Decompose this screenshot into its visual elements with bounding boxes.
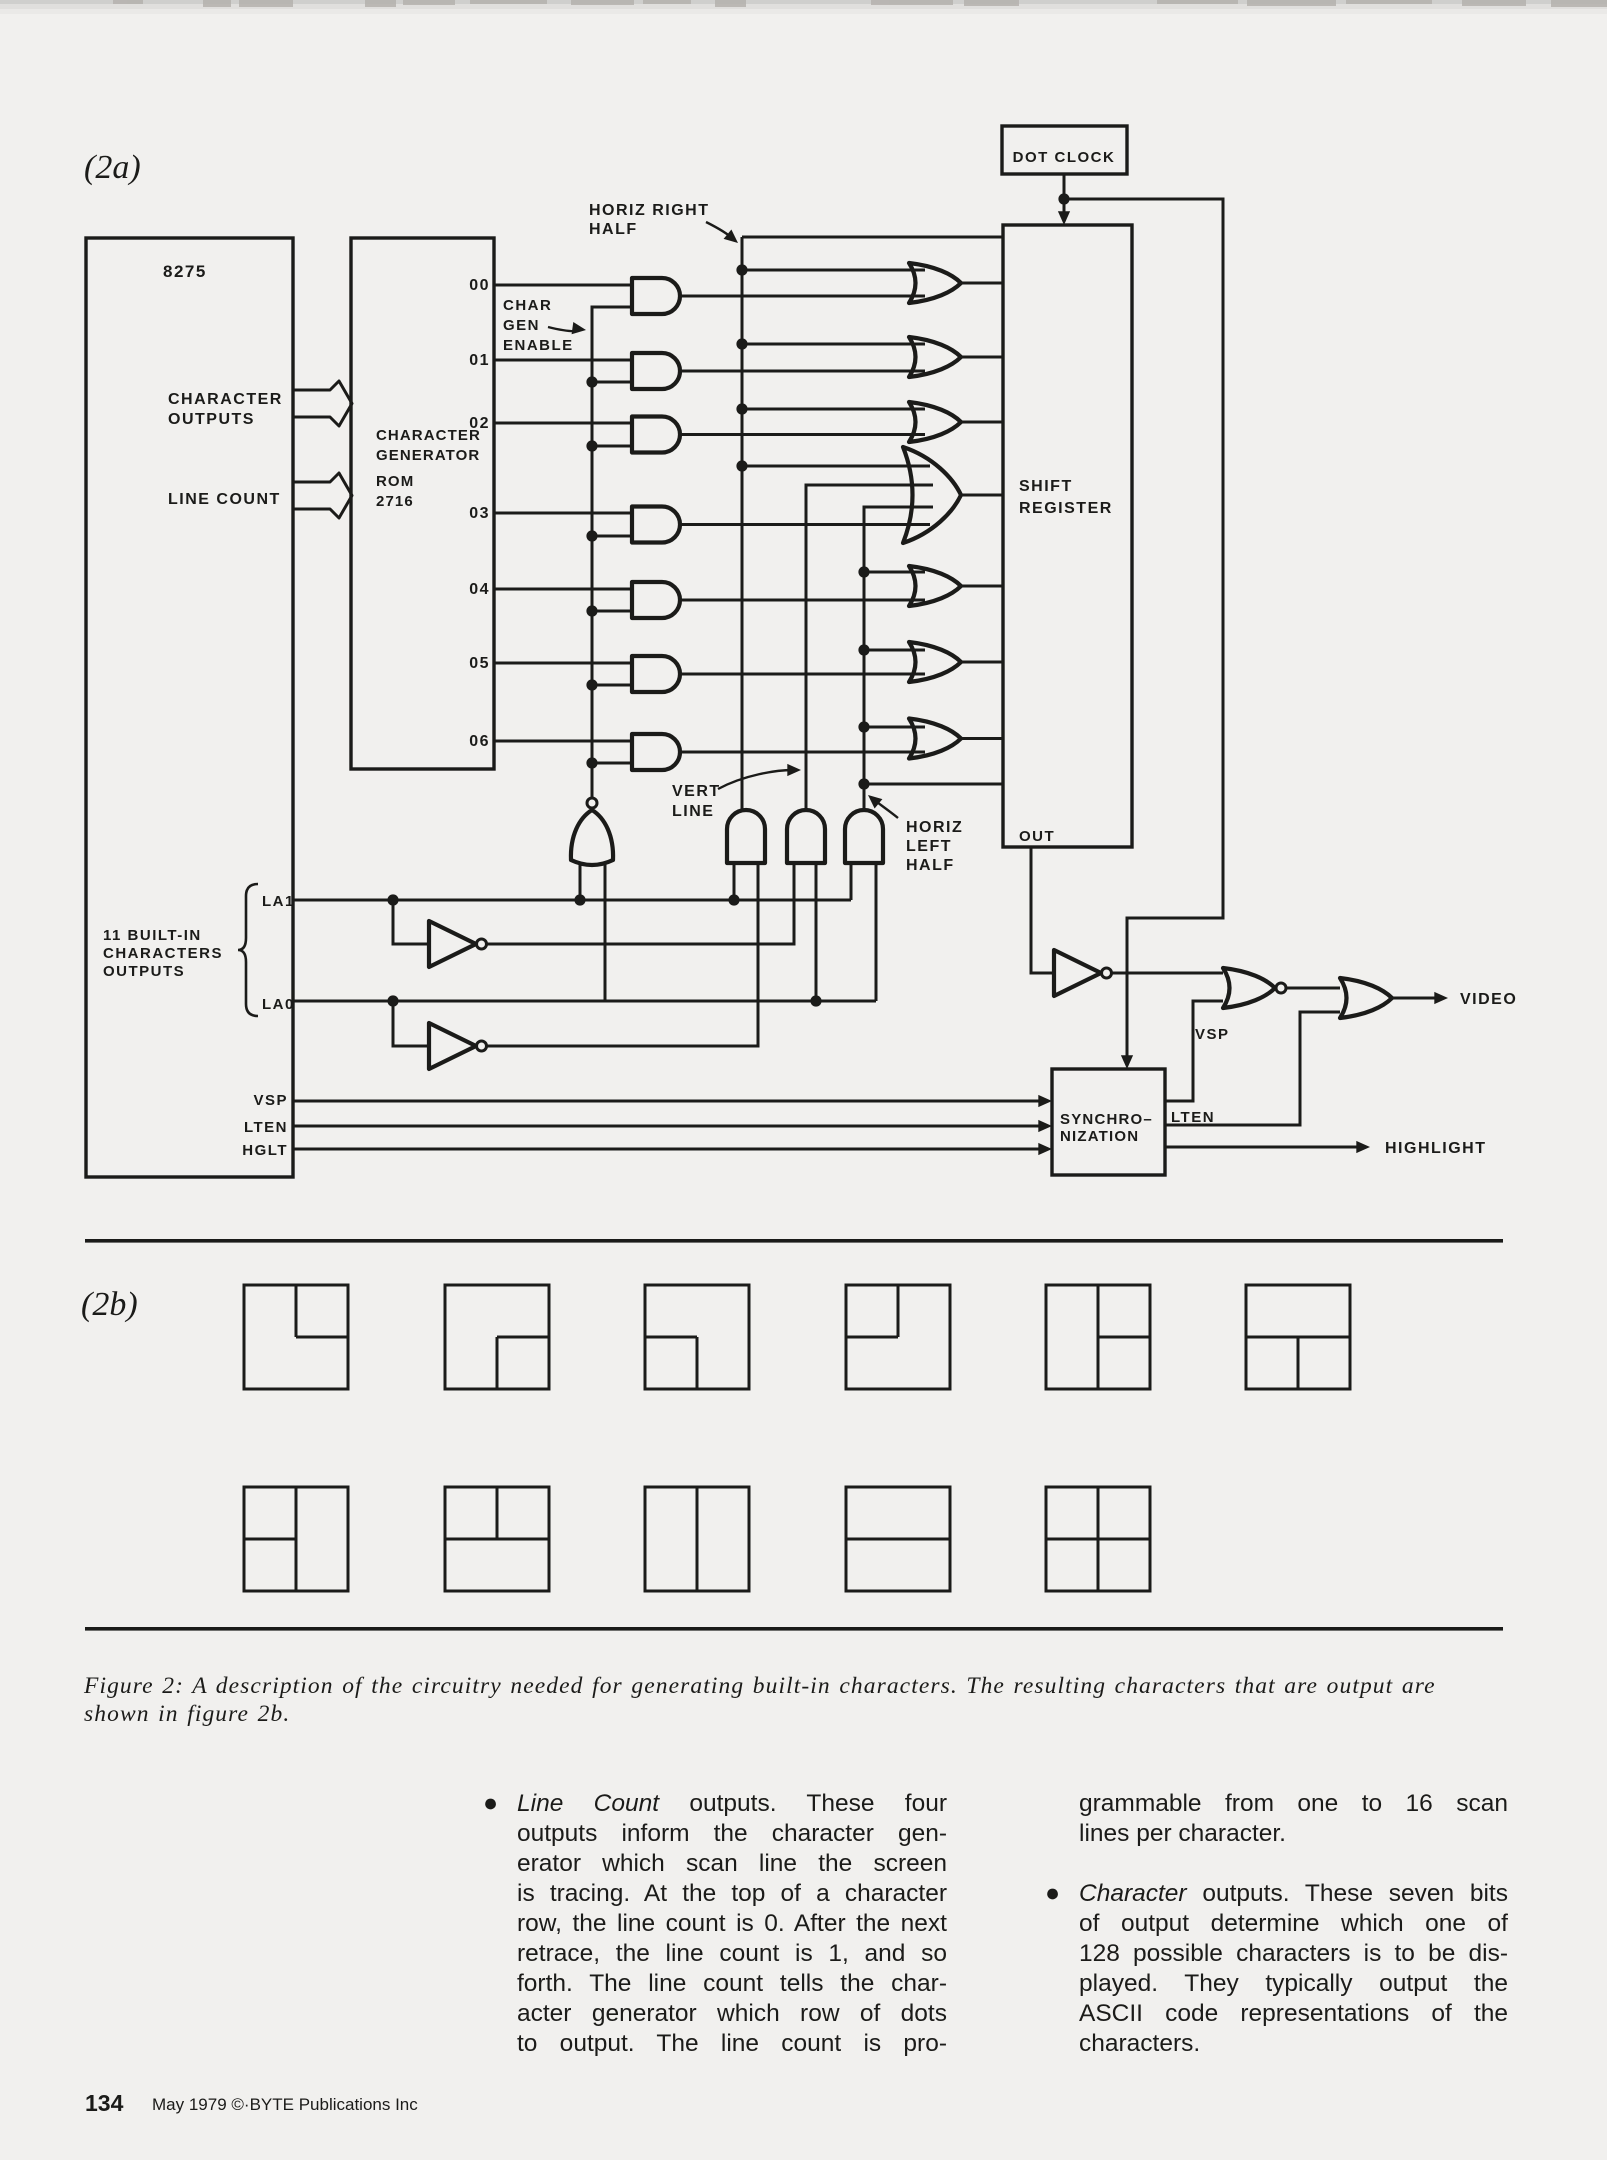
svg-text:HALF: HALF (589, 221, 638, 238)
svg-text:01: 01 (469, 352, 490, 369)
wire dot clock down (1063, 174, 1066, 199)
node LA1 to G9 (728, 894, 739, 905)
wire AND G2 output to OR (680, 370, 925, 373)
AND gate G1 (bit 00) (632, 278, 680, 314)
svg-text:GEN: GEN (503, 317, 540, 334)
svg-text:LINE: LINE (672, 803, 714, 820)
node horiz right half junction y=344 (736, 338, 747, 349)
wire OR3 output to shift register (961, 421, 1003, 424)
svg-text:LEFT: LEFT (906, 838, 952, 855)
wire G11 input B rise (875, 863, 878, 1001)
wire bus to OR4 input1 (742, 465, 930, 468)
NOR G8 output bubble (587, 798, 597, 808)
svg-text:HORIZ: HORIZ (906, 819, 963, 836)
svg-text:REGISTER: REGISTER (1019, 500, 1113, 517)
wire ROM output 02 to AND gate (494, 422, 632, 425)
node LA1 to NOR G8 (574, 894, 585, 905)
svg-text:02: 02 (469, 415, 490, 432)
wire horiz right half vertical bus (741, 237, 744, 810)
wire NOR G8 input B to LA0 (604, 862, 607, 1001)
wire bus to OR5 input (864, 571, 925, 574)
node horiz left half junction y=727 (858, 721, 869, 732)
wire AND G4 output to OR (680, 523, 930, 526)
wire ROM output 05 to AND gate (494, 662, 632, 665)
wire ROM output 01 to AND gate (494, 359, 632, 362)
wire G9 input B to inverter U4 output (486, 863, 758, 1046)
inverter U3 (LA1) (429, 921, 476, 967)
OR gate OR6 (909, 642, 961, 682)
wire horiz left half bus to OR4 input3 (864, 507, 933, 810)
wire G10 input A to inverter U3 output (486, 863, 794, 944)
wire inverter U5 output to NOR (1110, 972, 1223, 975)
built-in character glyph 4 (846, 1285, 950, 1389)
svg-text:NIZATION: NIZATION (1060, 1128, 1139, 1145)
built-in character glyph 11 (1046, 1487, 1150, 1591)
page footer (85, 2090, 123, 2117)
bullet: character outputs (1045, 1879, 1060, 1908)
synchronization block (1052, 1069, 1165, 1175)
wire LA0 to inverter U4 input (393, 1001, 429, 1046)
node horiz right half junction y=466 (736, 460, 747, 471)
wire char gen enable to AND input y=446 (592, 445, 632, 448)
built-in character glyph 3 (645, 1285, 749, 1389)
svg-text:LTEN: LTEN (244, 1119, 288, 1136)
wire NOR G8 input A to LA1 (579, 862, 582, 900)
bus arrow: character outputs 8275 to ROM (292, 381, 352, 426)
svg-text:LA0: LA0 (262, 996, 295, 1013)
dot clock oscillator block (1002, 126, 1127, 174)
AND gate G11 (horiz left half) (845, 810, 883, 863)
svg-text:CHAR: CHAR (503, 297, 552, 314)
wire AND G3 output to OR (680, 433, 925, 436)
wire OR1 output to shift register (961, 282, 1003, 285)
svg-text:ROM: ROM (376, 473, 414, 490)
wire VSP to synchronization (293, 1100, 1045, 1103)
AND gate G2 (bit 01) (632, 353, 680, 389)
svg-text:VIDEO: VIDEO (1460, 991, 1517, 1008)
node horiz right half junction y=270 (736, 264, 747, 275)
built-in character glyph 10 (846, 1487, 950, 1591)
arrowhead into synchronization top (1121, 1055, 1133, 1069)
wire ROM output 04 to AND gate (494, 588, 632, 591)
CRT controller U1 8275 (86, 238, 293, 1177)
built-in character glyph 1 (244, 1285, 348, 1389)
wire inverter U3 output (487, 943, 794, 946)
wire bus to OR6 input (864, 649, 925, 652)
node horiz right half junction y=409 (736, 403, 747, 414)
arrowhead highlight (1356, 1141, 1370, 1153)
svg-text:SYNCHRO–: SYNCHRO– (1060, 1111, 1153, 1128)
NOR gate G8 (char gen enable) (571, 810, 613, 865)
svg-text:2716: 2716 (376, 493, 414, 510)
arrowhead into shift register top (1058, 211, 1070, 225)
wire char gen enable to AND input y=536 (592, 535, 632, 538)
node dot-clock junction (1058, 193, 1069, 204)
wire horiz right half top into shift register (742, 236, 1003, 239)
wire nor bubble join (591, 763, 594, 798)
svg-text:(2a): (2a) (84, 149, 141, 186)
svg-text:OUTPUTS: OUTPUTS (103, 963, 185, 980)
node horiz left half junction y=572 (858, 566, 869, 577)
wire OR6 output to shift register (961, 661, 1003, 664)
wire bus to OR7 input (864, 726, 925, 729)
OR gate OR2 (909, 337, 961, 377)
svg-text:03: 03 (469, 505, 490, 522)
svg-text:LINE COUNT: LINE COUNT (168, 491, 281, 508)
wire char gen enable to AND input y=763 (592, 762, 632, 765)
node char gen enable junction y=611 (586, 605, 597, 616)
arrowhead video (1434, 992, 1448, 1004)
svg-text:VERT: VERT (672, 783, 721, 800)
wire ROM output 00 to AND gate (494, 284, 632, 287)
AND gate G4 (bit 03) (632, 507, 680, 543)
OR gate OR5 (909, 566, 961, 606)
rule below figure 2b (85, 1627, 1503, 1631)
leader arrow horiz left half (873, 799, 898, 818)
leader arrow horiz right half (706, 222, 733, 239)
leader arrow char gen enable (548, 327, 578, 331)
built-in character glyph 5 (1046, 1285, 1150, 1389)
svg-text:CHARACTERS: CHARACTERS (103, 945, 223, 962)
svg-text:HIGHLIGHT: HIGHLIGHT (1385, 1140, 1487, 1157)
svg-text:HORIZ RIGHT: HORIZ RIGHT (589, 202, 710, 219)
wire inverter U4 output (487, 1045, 758, 1048)
wire LA0 net (293, 1000, 876, 1003)
svg-text:DOT CLOCK: DOT CLOCK (1013, 149, 1116, 166)
wire ROM output 03 to AND gate (494, 512, 632, 515)
rule above figure 2b (85, 1239, 1503, 1243)
svg-text:04: 04 (469, 581, 490, 598)
svg-text:CHARACTER: CHARACTER (376, 427, 481, 444)
wire char gen enable net (592, 307, 632, 799)
svg-text:CHARACTER: CHARACTER (168, 391, 283, 408)
built-in character glyph 2 (445, 1285, 549, 1389)
wire AND G7 output to OR (680, 751, 925, 754)
wire bus to OR3 input (742, 408, 925, 411)
wire dot clock into shift register (1063, 199, 1066, 218)
svg-text:HALF: HALF (906, 857, 955, 874)
brace for LA1/LA0 (238, 884, 258, 1016)
bus arrow: line count 8275 to ROM (292, 473, 352, 518)
bullet: line count outputs (483, 1789, 498, 1818)
svg-text:VSP: VSP (1195, 1026, 1230, 1043)
wire shift register OUT to inverter U5 (1031, 847, 1054, 973)
wire VSP from sync to NOR G12 (1165, 1001, 1223, 1101)
wire char gen enable to AND input y=611 (592, 610, 632, 613)
svg-text:ENABLE: ENABLE (503, 337, 574, 354)
wire LA1 net (293, 899, 851, 902)
node char gen enable junction y=763 (586, 757, 597, 768)
svg-text:HGLT: HGLT (242, 1142, 288, 1159)
wire OR5 output to shift register (961, 585, 1003, 588)
svg-text:05: 05 (469, 655, 490, 672)
AND gate G3 (bit 02) (632, 417, 680, 453)
wire LTEN from sync to OR G13 (1165, 1012, 1340, 1125)
OR gate OR7 (909, 719, 961, 759)
wire bus to OR2 input (742, 343, 925, 346)
wire AND G6 output to OR (680, 673, 925, 676)
svg-text:(2b): (2b) (81, 1286, 138, 1323)
svg-text:LA1: LA1 (262, 893, 295, 910)
wire G9 input A to LA1 (733, 863, 736, 900)
inverter U4 (LA0) (429, 1023, 476, 1069)
wire NOR G12 output to OR G13 (1286, 987, 1340, 990)
leader arrow vert line (718, 770, 793, 789)
built-in character glyph 6 (1246, 1285, 1350, 1389)
svg-text:06: 06 (469, 733, 490, 750)
svg-text:LTEN: LTEN (1171, 1109, 1215, 1126)
svg-text:OUT: OUT (1019, 828, 1055, 845)
scan top-edge print bleed marks (decorative) (113, 0, 1607, 7)
wire AND G1 output to OR (680, 295, 925, 298)
wire video output (1392, 997, 1440, 1000)
wire vert line bus to OR4 input2 (806, 485, 933, 810)
wire bus to OR1 input (742, 269, 925, 272)
wire HIGHLIGHT output (1165, 1146, 1362, 1149)
OR gate OR4 (4 inputs) (903, 447, 961, 543)
AND gate G10 (vert line) (787, 810, 825, 863)
svg-text:11 BUILT-IN: 11 BUILT-IN (103, 927, 202, 944)
wire OR7 output to shift register (961, 737, 1003, 740)
svg-text:SHIFT: SHIFT (1019, 478, 1073, 495)
wire char gen enable to AND input y=382 (592, 381, 632, 384)
built-in character glyph 8 (445, 1487, 549, 1591)
built-in character glyph 7 (244, 1487, 348, 1591)
wire junction to shift register (864, 783, 1003, 786)
scan page top edge shading (decorative) (0, 0, 1607, 4)
wire OR2 output to shift register (961, 356, 1003, 359)
wire HGLT to synchronization (293, 1148, 1045, 1151)
node horiz left half junction y=650 (858, 644, 869, 655)
wire dot clock to synchronization (1064, 199, 1223, 1062)
node LA1 branch to inverter U3 (387, 894, 398, 905)
built-in character glyph 9 (645, 1487, 749, 1591)
wire G11 input A rise (850, 863, 853, 900)
character generator ROM U2 2716 (351, 238, 494, 769)
node LA0 to G10 (810, 995, 821, 1006)
svg-text:OUTPUTS: OUTPUTS (168, 411, 255, 428)
wire AND G5 output to OR (680, 599, 925, 602)
AND gate G7 (bit 06) (632, 734, 680, 770)
wire OR4 output to shift register (961, 494, 1003, 497)
wire char gen enable to AND input y=685 (592, 684, 632, 687)
AND gate G5 (bit 04) (632, 582, 680, 618)
OR gate OR1 (909, 263, 961, 303)
svg-text:8275: 8275 (163, 262, 207, 281)
wire LTEN to synchronization (293, 1125, 1045, 1128)
svg-text:VSP: VSP (253, 1092, 288, 1109)
wire G10 input B to LA0 (815, 863, 818, 1001)
inverter U5 (video data) (1054, 950, 1101, 996)
NOR gate G12 body (1223, 968, 1275, 1008)
AND gate G9 (horiz right half) (727, 810, 765, 863)
node char gen enable junction y=536 (586, 530, 597, 541)
node char gen enable junction y=382 (586, 376, 597, 387)
node char gen enable junction y=685 (586, 679, 597, 690)
wire ROM output 06 to AND gate (494, 740, 632, 743)
svg-text:00: 00 (469, 277, 490, 294)
node LA0 branch to inverter U4 (387, 995, 398, 1006)
OR gate G13 (video) (1340, 978, 1392, 1018)
node horiz left half / out junction (858, 778, 869, 789)
node char gen enable junction y=446 (586, 440, 597, 451)
svg-text:GENERATOR: GENERATOR (376, 447, 480, 464)
figure caption (84, 1672, 1514, 1728)
shift register block (1003, 225, 1132, 847)
wire LA1 to inverter U3 input (393, 900, 429, 944)
OR gate OR3 (909, 402, 961, 442)
AND gate G6 (bit 05) (632, 656, 680, 692)
